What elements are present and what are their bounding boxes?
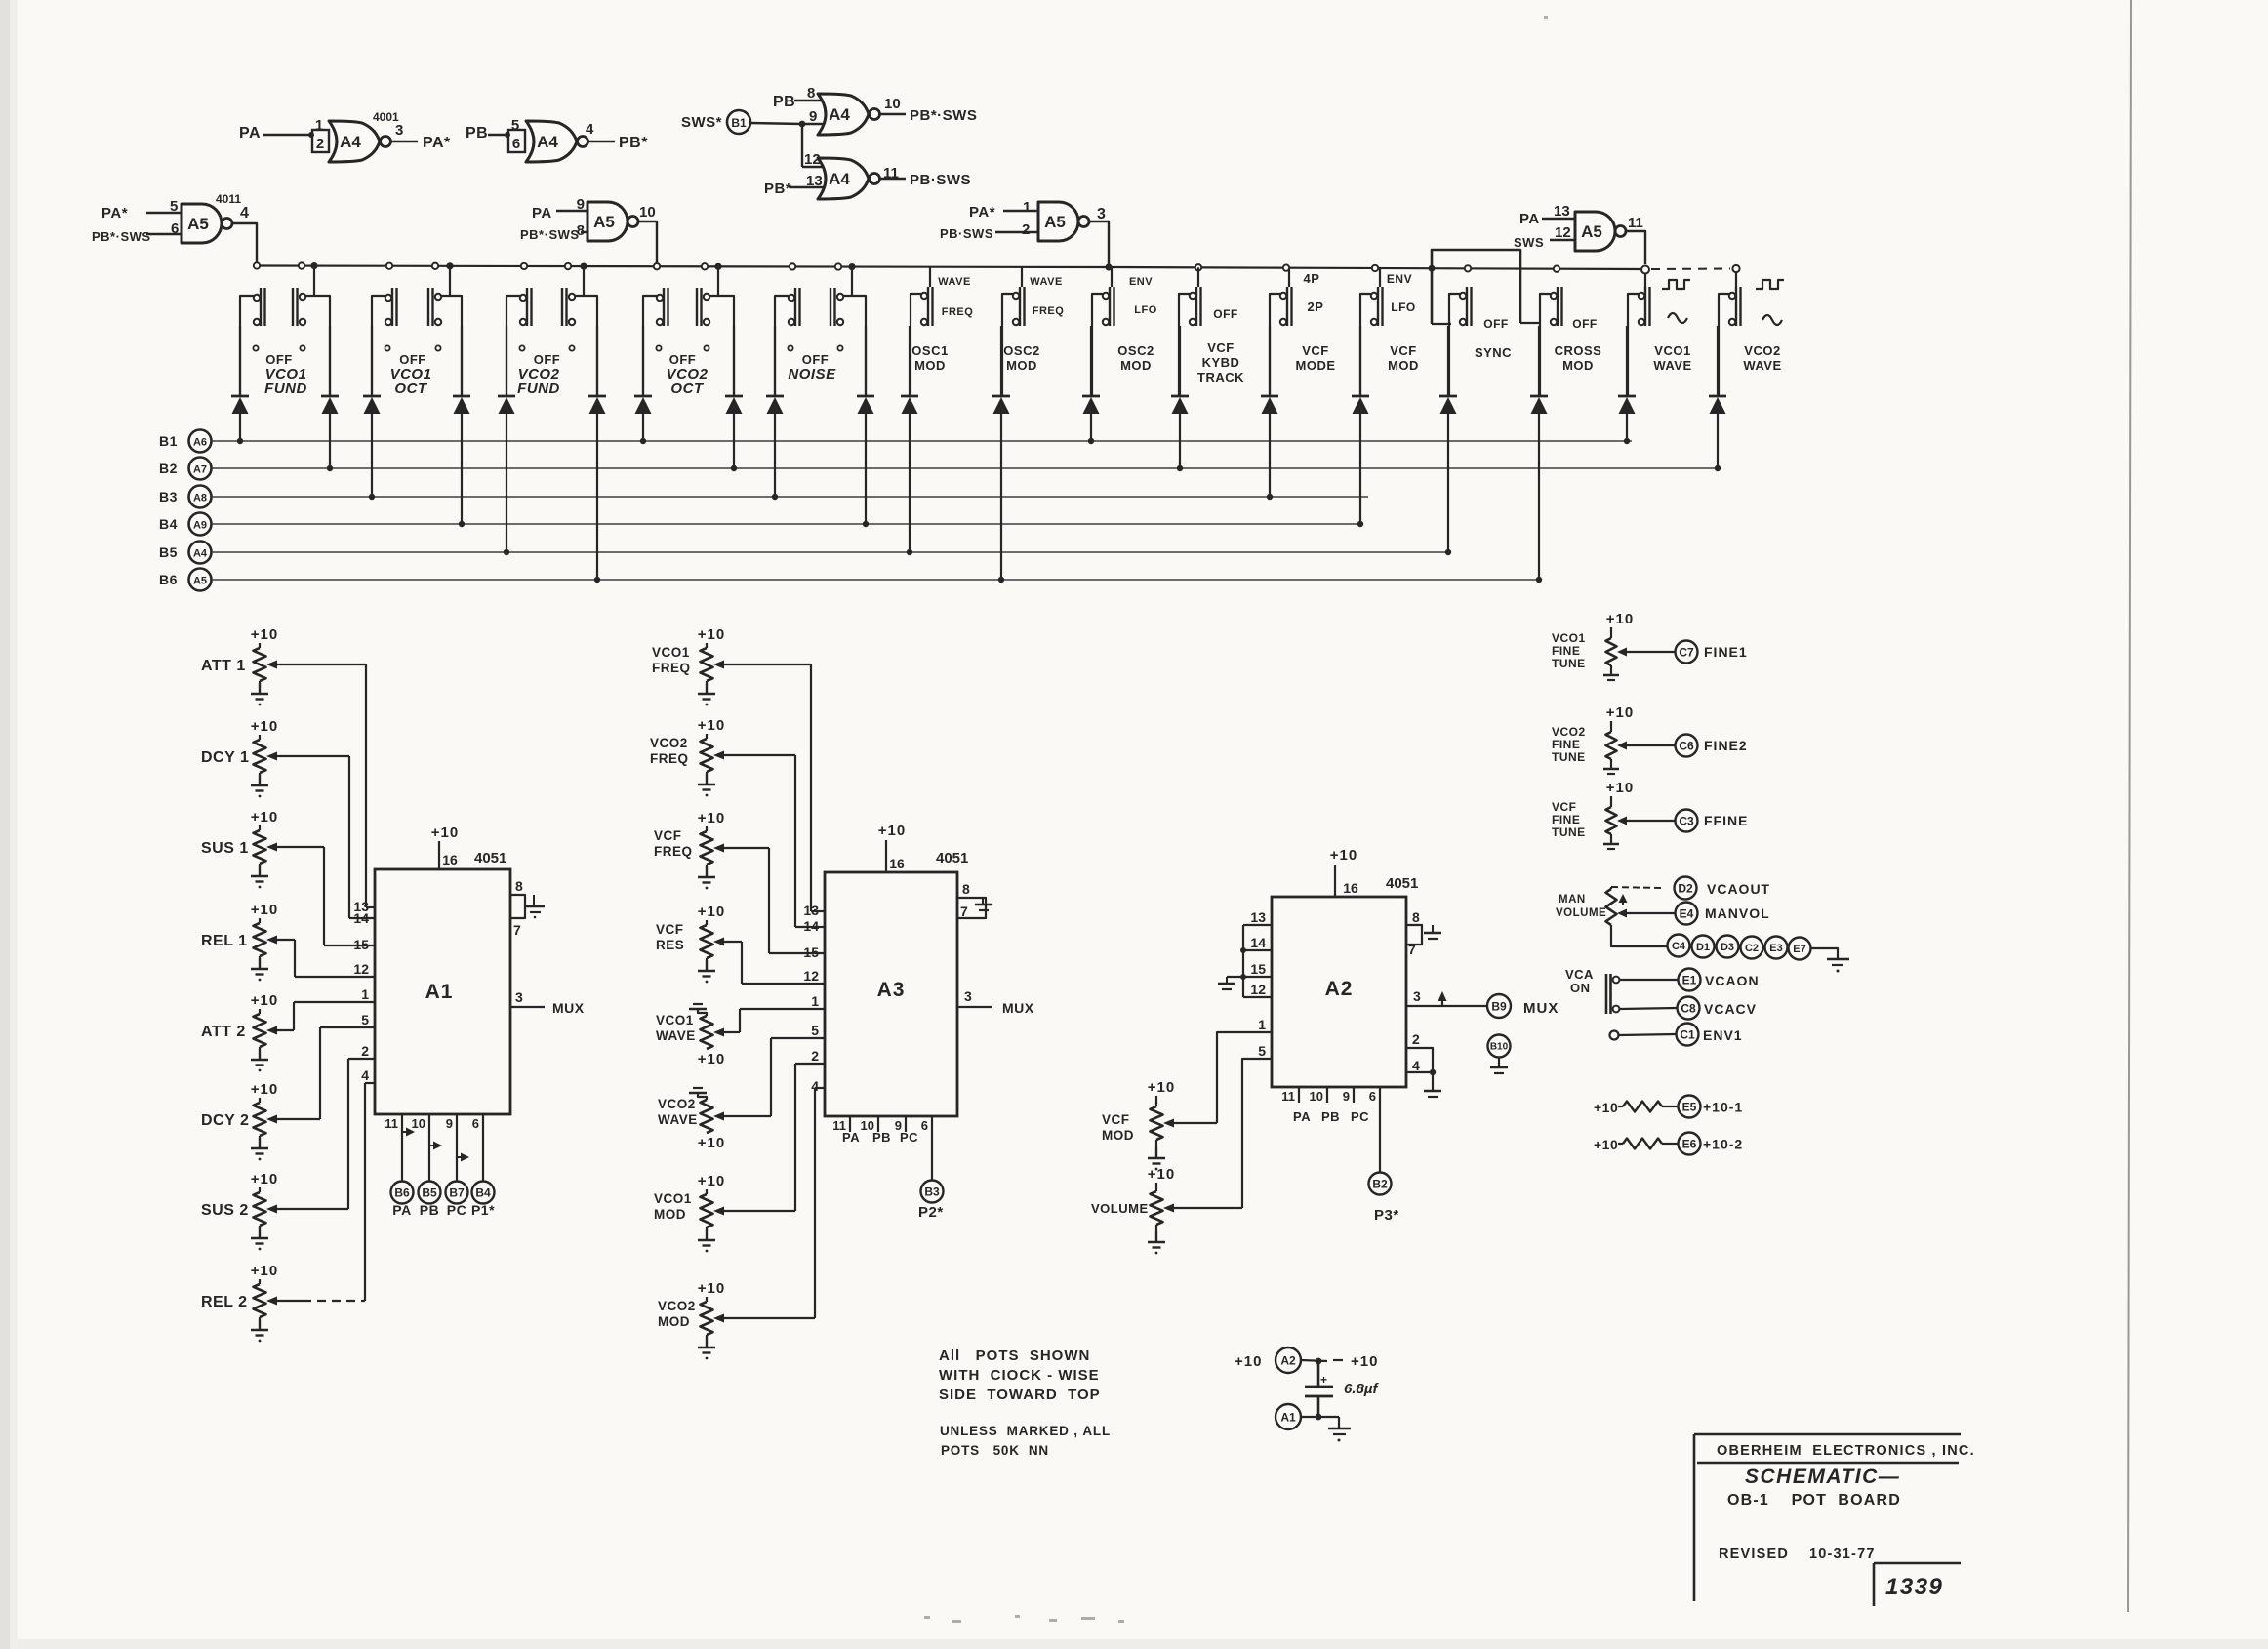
svg-text:8: 8 bbox=[577, 222, 585, 239]
svg-text:ENV: ENV bbox=[1387, 272, 1412, 286]
svg-text:+10: +10 bbox=[1148, 1079, 1175, 1096]
svg-text:A4: A4 bbox=[340, 133, 361, 151]
svg-text:FREQ: FREQ bbox=[654, 844, 693, 859]
svg-text:MAN: MAN bbox=[1559, 894, 1586, 905]
svg-text:+10: +10 bbox=[1330, 847, 1357, 864]
svg-text:FREQ: FREQ bbox=[942, 306, 974, 318]
svg-text:6.8µf: 6.8µf bbox=[1344, 1381, 1379, 1397]
svg-text:+10: +10 bbox=[1148, 1166, 1175, 1183]
svg-text:SUS 2: SUS 2 bbox=[201, 1202, 249, 1219]
svg-text:E3: E3 bbox=[1769, 943, 1782, 954]
svg-text:FUND: FUND bbox=[264, 381, 307, 397]
svg-text:VCF: VCF bbox=[1390, 343, 1417, 358]
svg-text:PC: PC bbox=[447, 1202, 466, 1218]
svg-text:TRACK: TRACK bbox=[1197, 370, 1244, 384]
svg-text:5: 5 bbox=[170, 198, 178, 215]
svg-text:A4: A4 bbox=[829, 105, 850, 124]
svg-text:+: + bbox=[1320, 1373, 1327, 1387]
svg-text:TUNE: TUNE bbox=[1552, 825, 1586, 839]
svg-text:PA: PA bbox=[1293, 1109, 1311, 1124]
svg-text:SUS 1: SUS 1 bbox=[201, 840, 249, 857]
svg-text:P1*: P1* bbox=[471, 1202, 495, 1218]
svg-text:FINE: FINE bbox=[1552, 813, 1580, 826]
svg-text:PC: PC bbox=[900, 1130, 918, 1145]
svg-text:SWS: SWS bbox=[1514, 235, 1544, 250]
svg-text:VCO2: VCO2 bbox=[650, 736, 688, 750]
svg-text:KYBD: KYBD bbox=[1202, 355, 1240, 370]
svg-text:WAVE: WAVE bbox=[658, 1112, 698, 1127]
svg-text:1: 1 bbox=[1023, 199, 1031, 216]
svg-text:ENV1: ENV1 bbox=[1703, 1027, 1743, 1043]
svg-text:B5: B5 bbox=[159, 544, 178, 560]
svg-text:PA: PA bbox=[1519, 211, 1540, 227]
svg-text:PA*: PA* bbox=[101, 205, 128, 221]
svg-text:ENV: ENV bbox=[1129, 276, 1153, 288]
svg-text:PB: PB bbox=[466, 125, 488, 141]
svg-text:+10: +10 bbox=[698, 626, 725, 643]
svg-text:LFO: LFO bbox=[1134, 304, 1157, 316]
svg-text:MOD: MOD bbox=[1120, 358, 1152, 373]
svg-text:B10: B10 bbox=[1490, 1042, 1509, 1053]
svg-text:A9: A9 bbox=[193, 520, 207, 532]
svg-text:MOD: MOD bbox=[1388, 358, 1419, 373]
svg-text:OSC2: OSC2 bbox=[1117, 343, 1154, 358]
svg-text:NOISE: NOISE bbox=[788, 366, 836, 382]
svg-text:PA*: PA* bbox=[423, 135, 451, 151]
svg-text:OFF: OFF bbox=[802, 352, 830, 367]
svg-text:TUNE: TUNE bbox=[1552, 657, 1586, 670]
svg-text:15: 15 bbox=[803, 945, 819, 960]
svg-text:6: 6 bbox=[472, 1116, 479, 1131]
svg-text:+10: +10 bbox=[698, 717, 725, 734]
svg-text:VCO1: VCO1 bbox=[656, 1013, 694, 1027]
svg-text:VCF: VCF bbox=[656, 922, 684, 937]
svg-text:+10: +10 bbox=[431, 824, 459, 841]
svg-text:+10: +10 bbox=[1235, 1353, 1262, 1370]
svg-text:+10: +10 bbox=[1351, 1353, 1378, 1370]
svg-text:OB-1 POT BOARD: OB-1 POT BOARD bbox=[1727, 1492, 1901, 1508]
svg-text:OSC2: OSC2 bbox=[1003, 343, 1039, 358]
svg-text:8: 8 bbox=[515, 878, 523, 894]
svg-text:2: 2 bbox=[1022, 221, 1030, 238]
svg-text:5: 5 bbox=[511, 117, 519, 134]
svg-text:+10: +10 bbox=[1594, 1100, 1618, 1115]
svg-text:13: 13 bbox=[1250, 909, 1266, 925]
svg-text:VCF: VCF bbox=[1552, 800, 1577, 814]
svg-text:WAVE: WAVE bbox=[1653, 358, 1691, 373]
svg-text:PB·SWS: PB·SWS bbox=[940, 226, 993, 241]
svg-text:E1: E1 bbox=[1682, 973, 1697, 986]
svg-text:PA: PA bbox=[239, 125, 261, 141]
svg-text:PB·SWS: PB·SWS bbox=[910, 172, 971, 188]
svg-text:MUX: MUX bbox=[1002, 1000, 1034, 1016]
svg-text:11: 11 bbox=[1628, 215, 1643, 231]
svg-text:VCF: VCF bbox=[654, 828, 682, 843]
svg-text:VCO2: VCO2 bbox=[1552, 725, 1586, 739]
svg-text:7: 7 bbox=[960, 904, 968, 919]
svg-text:C2: C2 bbox=[1745, 943, 1759, 954]
svg-text:REL 1: REL 1 bbox=[201, 933, 248, 949]
svg-text:A1: A1 bbox=[1280, 1410, 1296, 1424]
svg-text:FINE: FINE bbox=[1552, 738, 1580, 751]
svg-text:+10: +10 bbox=[251, 1171, 278, 1187]
svg-text:B2: B2 bbox=[1372, 1177, 1388, 1190]
svg-text:A5: A5 bbox=[1044, 213, 1066, 231]
svg-text:PB: PB bbox=[1321, 1109, 1340, 1124]
svg-text:PA: PA bbox=[532, 205, 552, 221]
svg-text:13: 13 bbox=[803, 903, 819, 918]
svg-text:TUNE: TUNE bbox=[1552, 750, 1586, 764]
svg-text:A6: A6 bbox=[193, 437, 207, 449]
svg-text:POTS 50K NN: POTS 50K NN bbox=[941, 1443, 1049, 1458]
svg-text:10: 10 bbox=[639, 204, 656, 221]
svg-text:3: 3 bbox=[1097, 206, 1106, 222]
svg-text:10: 10 bbox=[1310, 1089, 1323, 1104]
svg-text:B3: B3 bbox=[159, 489, 178, 504]
svg-text:WAVE: WAVE bbox=[1743, 358, 1781, 373]
svg-text:+10-1: +10-1 bbox=[1703, 1100, 1743, 1115]
svg-text:+10: +10 bbox=[698, 904, 725, 920]
svg-text:4: 4 bbox=[1412, 1058, 1420, 1073]
svg-text:UNLESS MARKED , ALL: UNLESS MARKED , ALL bbox=[940, 1424, 1111, 1438]
svg-text:4051: 4051 bbox=[1386, 875, 1418, 892]
svg-text:FREQ: FREQ bbox=[1033, 305, 1065, 317]
svg-text:C7: C7 bbox=[1679, 645, 1694, 659]
svg-text:MODE: MODE bbox=[1296, 358, 1336, 373]
svg-text:16: 16 bbox=[889, 856, 905, 871]
svg-text:12: 12 bbox=[1555, 224, 1571, 241]
svg-text:C6: C6 bbox=[1679, 739, 1694, 752]
svg-text:MANVOL: MANVOL bbox=[1705, 905, 1770, 921]
svg-text:PA: PA bbox=[842, 1130, 860, 1145]
svg-text:E6: E6 bbox=[1682, 1137, 1697, 1150]
svg-text:6: 6 bbox=[512, 136, 520, 152]
svg-text:9: 9 bbox=[446, 1116, 453, 1131]
svg-text:VCF: VCF bbox=[1207, 341, 1235, 355]
svg-text:+10: +10 bbox=[1606, 780, 1634, 796]
svg-text:+10: +10 bbox=[251, 992, 278, 1009]
svg-text:A2: A2 bbox=[1280, 1353, 1296, 1367]
svg-text:A7: A7 bbox=[193, 464, 207, 476]
svg-text:OCT: OCT bbox=[670, 381, 705, 397]
svg-text:A1: A1 bbox=[425, 981, 454, 1003]
svg-text:1339: 1339 bbox=[1885, 1574, 1943, 1600]
svg-text:VCO2: VCO2 bbox=[1744, 343, 1780, 358]
svg-text:OFF: OFF bbox=[1213, 307, 1238, 321]
svg-text:VCAOUT: VCAOUT bbox=[1707, 881, 1770, 897]
svg-text:VCF: VCF bbox=[1102, 1112, 1130, 1127]
svg-text:PB*: PB* bbox=[619, 135, 648, 151]
svg-text:1: 1 bbox=[1258, 1017, 1266, 1032]
svg-text:13: 13 bbox=[1554, 203, 1570, 220]
svg-text:A4: A4 bbox=[537, 133, 558, 151]
svg-text:PB*·SWS: PB*·SWS bbox=[910, 107, 977, 124]
svg-text:1: 1 bbox=[361, 986, 369, 1002]
svg-text:A4: A4 bbox=[829, 170, 850, 188]
svg-text:2P: 2P bbox=[1308, 300, 1324, 314]
svg-text:OFF: OFF bbox=[1483, 317, 1509, 331]
svg-text:OBERHEIM ELECTRONICS , INC.: OBERHEIM ELECTRONICS , INC. bbox=[1717, 1443, 1975, 1459]
svg-text:MUX: MUX bbox=[1523, 1000, 1559, 1017]
svg-text:4: 4 bbox=[240, 205, 249, 221]
svg-text:CROSS: CROSS bbox=[1555, 343, 1602, 358]
svg-text:SCHEMATIC—: SCHEMATIC— bbox=[1745, 1466, 1900, 1488]
svg-text:PB: PB bbox=[420, 1202, 439, 1218]
svg-text:OFF: OFF bbox=[399, 352, 426, 367]
svg-text:PC: PC bbox=[1351, 1109, 1369, 1124]
svg-text:All POTS SHOWN: All POTS SHOWN bbox=[939, 1347, 1090, 1364]
svg-text:B6: B6 bbox=[159, 572, 178, 587]
svg-text:4051: 4051 bbox=[474, 850, 506, 866]
svg-text:+10: +10 bbox=[1606, 704, 1634, 721]
svg-text:E5: E5 bbox=[1682, 1100, 1697, 1113]
svg-text:FREQ: FREQ bbox=[652, 661, 691, 675]
svg-text:B6: B6 bbox=[394, 1186, 410, 1199]
svg-text:+10: +10 bbox=[698, 1135, 725, 1151]
svg-text:OFF: OFF bbox=[669, 352, 697, 367]
svg-text:D2: D2 bbox=[1678, 881, 1693, 895]
svg-text:VCO1: VCO1 bbox=[652, 645, 690, 660]
svg-text:FREQ: FREQ bbox=[650, 751, 689, 766]
svg-text:+10: +10 bbox=[1594, 1137, 1618, 1152]
svg-text:+10: +10 bbox=[698, 1051, 725, 1067]
svg-text:B1: B1 bbox=[159, 433, 178, 449]
svg-text:2: 2 bbox=[361, 1043, 369, 1059]
svg-text:8: 8 bbox=[807, 85, 815, 101]
svg-text:MOD: MOD bbox=[1006, 358, 1037, 373]
svg-text:C4: C4 bbox=[1672, 941, 1686, 952]
svg-text:OCT: OCT bbox=[394, 381, 428, 397]
svg-text:4051: 4051 bbox=[936, 850, 968, 866]
svg-text:A5: A5 bbox=[187, 215, 209, 233]
svg-text:9: 9 bbox=[577, 196, 585, 213]
svg-text:ATT 1: ATT 1 bbox=[201, 658, 246, 674]
svg-text:+10: +10 bbox=[251, 1263, 278, 1279]
svg-text:ON: ON bbox=[1570, 981, 1591, 995]
svg-text:PB: PB bbox=[872, 1130, 891, 1145]
svg-text:A2: A2 bbox=[1325, 978, 1354, 1000]
svg-text:MUX: MUX bbox=[552, 1000, 585, 1016]
svg-text:+10: +10 bbox=[251, 902, 278, 918]
svg-text:4P: 4P bbox=[1304, 271, 1320, 286]
svg-text:VCO1: VCO1 bbox=[1654, 343, 1690, 358]
svg-text:MOD: MOD bbox=[1102, 1128, 1134, 1143]
svg-text:VCO1: VCO1 bbox=[654, 1191, 692, 1206]
svg-text:7: 7 bbox=[1408, 942, 1416, 957]
svg-text:A3: A3 bbox=[877, 979, 906, 1001]
svg-text:B4: B4 bbox=[475, 1186, 491, 1199]
svg-text:PB*: PB* bbox=[764, 181, 791, 197]
svg-text:SYNC: SYNC bbox=[1475, 345, 1512, 360]
svg-text:3: 3 bbox=[1413, 988, 1421, 1004]
svg-text:2: 2 bbox=[1412, 1031, 1420, 1047]
svg-text:ATT 2: ATT 2 bbox=[201, 1024, 246, 1040]
svg-text:B4: B4 bbox=[159, 516, 178, 532]
svg-text:12: 12 bbox=[1250, 982, 1266, 997]
svg-text:FINE2: FINE2 bbox=[1704, 738, 1748, 753]
svg-text:+10: +10 bbox=[251, 718, 278, 735]
svg-text:9: 9 bbox=[1343, 1089, 1350, 1104]
svg-text:3: 3 bbox=[964, 988, 972, 1004]
svg-text:12: 12 bbox=[353, 961, 369, 977]
svg-text:B9: B9 bbox=[1491, 999, 1507, 1013]
svg-text:VCO2: VCO2 bbox=[658, 1097, 696, 1111]
svg-text:+10: +10 bbox=[251, 1081, 278, 1098]
svg-text:OFF: OFF bbox=[265, 352, 293, 367]
svg-text:VCAON: VCAON bbox=[1705, 973, 1760, 988]
svg-text:SWS*: SWS* bbox=[681, 114, 722, 131]
svg-text:MOD: MOD bbox=[654, 1207, 686, 1222]
svg-text:PB: PB bbox=[773, 94, 795, 110]
svg-text:B7: B7 bbox=[449, 1186, 465, 1199]
svg-text:VCO2: VCO2 bbox=[658, 1299, 696, 1313]
svg-text:FINE: FINE bbox=[1552, 644, 1580, 658]
svg-text:OFF: OFF bbox=[534, 352, 561, 367]
svg-text:D1: D1 bbox=[1696, 942, 1710, 953]
svg-text:A8: A8 bbox=[193, 493, 207, 504]
svg-text:VCO1: VCO1 bbox=[1552, 631, 1586, 645]
svg-text:14: 14 bbox=[803, 918, 819, 934]
svg-text:+10: +10 bbox=[251, 809, 278, 825]
svg-text:3: 3 bbox=[395, 122, 403, 139]
svg-text:VCACV: VCACV bbox=[1704, 1001, 1757, 1017]
svg-text:VOLUME: VOLUME bbox=[1556, 907, 1606, 919]
svg-text:6: 6 bbox=[921, 1118, 928, 1133]
svg-text:PB*·SWS: PB*·SWS bbox=[520, 227, 580, 242]
svg-text:4011: 4011 bbox=[216, 192, 241, 206]
svg-text:6: 6 bbox=[1369, 1089, 1376, 1104]
svg-text:REVISED 10-31-77: REVISED 10-31-77 bbox=[1719, 1547, 1876, 1562]
svg-text:2: 2 bbox=[811, 1048, 819, 1064]
svg-text:VCF: VCF bbox=[1302, 343, 1329, 358]
svg-text:10: 10 bbox=[412, 1116, 425, 1131]
svg-text:3: 3 bbox=[515, 989, 523, 1005]
svg-text:A5: A5 bbox=[593, 213, 615, 231]
svg-text:6: 6 bbox=[171, 221, 179, 237]
svg-text:FUND: FUND bbox=[517, 381, 560, 397]
svg-text:OFF: OFF bbox=[1572, 317, 1598, 331]
svg-text:PA*: PA* bbox=[969, 204, 995, 221]
svg-text:DCY 2: DCY 2 bbox=[201, 1112, 249, 1129]
svg-text:4: 4 bbox=[586, 121, 594, 138]
svg-text:RES: RES bbox=[656, 938, 684, 952]
svg-text:MOD: MOD bbox=[914, 358, 946, 373]
svg-text:E7: E7 bbox=[1793, 944, 1805, 955]
svg-text:WITH CIOCK - WISE: WITH CIOCK - WISE bbox=[939, 1367, 1100, 1384]
svg-text:SIDE TOWARD TOP: SIDE TOWARD TOP bbox=[939, 1387, 1101, 1403]
svg-text:LFO: LFO bbox=[1391, 301, 1416, 314]
svg-text:2: 2 bbox=[316, 136, 324, 152]
svg-text:11: 11 bbox=[385, 1116, 398, 1131]
svg-text:+10: +10 bbox=[1606, 611, 1634, 627]
svg-text:DCY 1: DCY 1 bbox=[201, 749, 249, 766]
svg-text:+10: +10 bbox=[878, 823, 906, 839]
svg-text:PB*·SWS: PB*·SWS bbox=[92, 229, 151, 244]
svg-text:5: 5 bbox=[361, 1012, 369, 1027]
svg-text:A5: A5 bbox=[193, 576, 207, 587]
svg-text:1: 1 bbox=[315, 117, 323, 134]
svg-text:15: 15 bbox=[1250, 961, 1266, 977]
svg-text:WAVE: WAVE bbox=[938, 276, 971, 288]
svg-text:FINE1: FINE1 bbox=[1704, 644, 1748, 660]
svg-text:16: 16 bbox=[442, 852, 458, 867]
svg-text:B3: B3 bbox=[924, 1185, 940, 1198]
svg-text:B5: B5 bbox=[422, 1186, 437, 1199]
svg-text:A4: A4 bbox=[193, 548, 208, 560]
svg-text:E4: E4 bbox=[1680, 906, 1694, 920]
svg-text:C3: C3 bbox=[1679, 814, 1694, 827]
svg-text:MOD: MOD bbox=[658, 1314, 690, 1329]
svg-text:D3: D3 bbox=[1721, 942, 1734, 953]
svg-text:14: 14 bbox=[1250, 935, 1266, 950]
svg-text:16: 16 bbox=[1343, 880, 1358, 896]
svg-text:+10: +10 bbox=[698, 1173, 725, 1189]
svg-text:+10: +10 bbox=[698, 810, 725, 826]
svg-text:7: 7 bbox=[513, 922, 521, 938]
svg-text:OSC1: OSC1 bbox=[911, 343, 948, 358]
svg-text:P2*: P2* bbox=[918, 1204, 944, 1221]
svg-text:WAVE: WAVE bbox=[656, 1028, 696, 1043]
svg-text:4: 4 bbox=[811, 1078, 819, 1094]
svg-text:C8: C8 bbox=[1681, 1001, 1696, 1015]
svg-text:1: 1 bbox=[811, 993, 819, 1009]
svg-text:A5: A5 bbox=[1581, 222, 1602, 241]
svg-text:REL 2: REL 2 bbox=[201, 1294, 248, 1310]
svg-text:11: 11 bbox=[1281, 1089, 1295, 1104]
svg-text:+10-2: +10-2 bbox=[1703, 1137, 1743, 1152]
svg-text:10: 10 bbox=[884, 96, 901, 112]
svg-text:MOD: MOD bbox=[1562, 358, 1594, 373]
svg-text:5: 5 bbox=[811, 1023, 819, 1038]
svg-text:15: 15 bbox=[353, 937, 369, 952]
svg-text:B1: B1 bbox=[731, 116, 747, 130]
svg-text:14: 14 bbox=[353, 910, 369, 926]
svg-text:FFINE: FFINE bbox=[1704, 813, 1748, 828]
svg-text:9: 9 bbox=[809, 108, 817, 125]
svg-text:PA: PA bbox=[392, 1202, 411, 1218]
svg-text:P3*: P3* bbox=[1374, 1207, 1399, 1224]
svg-text:8: 8 bbox=[962, 881, 970, 897]
svg-text:+10: +10 bbox=[698, 1280, 725, 1297]
svg-text:12: 12 bbox=[803, 968, 819, 984]
svg-text:VCA: VCA bbox=[1565, 967, 1594, 982]
svg-text:VOLUME: VOLUME bbox=[1091, 1201, 1149, 1216]
svg-text:4: 4 bbox=[361, 1067, 369, 1083]
svg-text:5: 5 bbox=[1258, 1043, 1266, 1059]
svg-text:C1: C1 bbox=[1680, 1027, 1695, 1041]
svg-text:B2: B2 bbox=[159, 461, 178, 476]
svg-text:+10: +10 bbox=[251, 626, 278, 643]
svg-text:WAVE: WAVE bbox=[1030, 276, 1063, 288]
svg-text:8: 8 bbox=[1412, 909, 1420, 925]
